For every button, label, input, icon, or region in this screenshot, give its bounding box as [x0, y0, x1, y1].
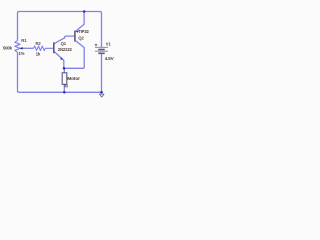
svg-text:R1: R1	[21, 38, 27, 43]
svg-text:Q2: Q2	[78, 35, 84, 40]
svg-text:1%: 1%	[19, 51, 25, 56]
svg-text:R2: R2	[36, 41, 42, 46]
svg-text:V1: V1	[106, 41, 112, 46]
svg-text:Q1: Q1	[61, 41, 67, 46]
svg-text:TIP32: TIP32	[78, 29, 89, 34]
svg-text:4.5V: 4.5V	[105, 56, 114, 61]
svg-text:2N2222: 2N2222	[58, 47, 73, 52]
svg-text:500k: 500k	[3, 46, 13, 51]
svg-text:Motor: Motor	[67, 76, 80, 82]
svg-text:1k: 1k	[36, 51, 41, 56]
